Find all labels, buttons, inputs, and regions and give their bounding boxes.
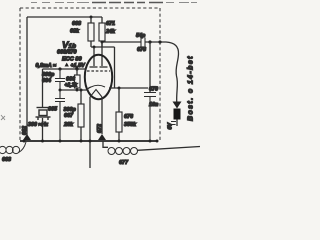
svg-text:668: 668 [72,21,81,27]
wire R676 stubs [118,88,120,141]
node dot L663 bus [23,140,26,143]
svg-text:672: 672 [97,124,103,133]
node dot R667 bus [80,140,83,143]
node dot C679 bus [149,140,152,143]
dashed enclosure frame top [20,7,160,9]
resistor R666 2,2k [75,75,81,88]
node dot anode1 tap [93,46,96,49]
svg-text:667: 667 [64,113,74,119]
wire output cable curve [166,42,179,103]
cathode arc [91,85,105,87]
node: rail junction dot at R668 [90,16,93,19]
ground bus [20,140,158,142]
node dot R667 top [80,89,83,92]
svg-text:+2,2k: +2,2k [65,83,78,89]
wire anode2 node y42 [102,41,141,43]
node dot at 160 [158,40,161,43]
dashed enclosure frame left [19,8,21,141]
svg-text:300 ≈Hz: 300 ≈Hz [28,122,48,128]
svg-text:20k: 20k [63,122,74,128]
wire: left rail [26,17,28,135]
wire R668 bottom to y47 [90,41,92,47]
dashed enclosure frame right [159,8,161,141]
wire R671 top stub [101,17,103,23]
node dot bus end [156,140,159,143]
wire L677 to right edge [137,147,200,151]
wire R668 top stub [90,17,92,23]
wire cathode line y93 [60,89,87,91]
tube V1b envelope [85,55,112,99]
node dot resonator bus [41,140,44,143]
wire anode1 lead [93,47,95,66]
inductor L677 [103,141,108,147]
wire heater lead left (down past bus, off page) [89,97,91,168]
wire anode2 lead [101,42,103,66]
capacitor C665 300p [55,90,65,141]
wire secondary cathode/grid line y88 [109,87,148,89]
svg-text:54p: 54p [136,33,146,39]
svg-text:676: 676 [124,114,134,120]
tuning fork resonator [36,108,51,121]
node dot R666 top [75,67,78,70]
heater [90,90,102,98]
node dot at 150 [148,40,151,43]
svg-text:Bost. o 14-bet: Bost. o 14-bet [188,55,195,121]
capacitor C664 300p [55,69,65,90]
node dot R676 bus [118,140,121,143]
resistor R667 20k [78,104,84,127]
node dot R666 bottom [76,89,79,92]
svg-text:24k: 24k [105,29,116,35]
capacitor C678 54p [141,38,145,48]
svg-text:10n: 10n [149,102,159,108]
wire: B+ top rail [27,16,102,18]
cathode lead to left [87,87,91,90]
cropped text remnants along top edge [31,2,197,4]
wire heater lead right [101,97,103,134]
wire R667 stubs [80,90,82,141]
svg-text:679: 679 [149,87,158,93]
stray mark bottom left [1,115,5,120]
wire down right side of tube [114,47,116,88]
anode plate 2 [100,66,108,68]
resistor R676 350k [116,112,122,132]
svg-text:350k: 350k [124,122,137,128]
svg-text:664: 664 [42,78,51,84]
node dot heater-bus [89,140,92,143]
resistor R668 68k [88,23,94,41]
svg-text:ECC 80: ECC 80 [62,57,82,63]
tuning fork resonator lead [42,69,44,108]
svg-text:678: 678 [137,47,146,53]
chassis arrow left rail [23,134,31,140]
wire C679 vertical [149,42,151,92]
wire resonator to bus [42,118,44,141]
label +1,5V with marker [65,63,69,67]
wire y47 from R668 to right [91,46,115,48]
node dot R676 top [118,87,121,90]
svg-text:6V: 6V [168,123,174,130]
chassis arrow heater [98,134,106,140]
connector plug [173,102,182,109]
wire R671 bottom [101,41,103,47]
svg-text:68k: 68k [70,29,80,35]
node dot C665 top [59,89,62,92]
svg-text:0,8mA ≈: 0,8mA ≈ [36,63,56,69]
inductor L663 [0,142,26,154]
resistor R671 24k [99,23,105,41]
svg-text:677: 677 [119,160,129,166]
node dot C664 top [58,67,61,70]
node dot anode2 [101,41,104,44]
node dot C665 bus [59,140,62,143]
anode plate 1 [90,66,98,68]
grid (dashed) [87,70,110,72]
wire y42 right of cap [145,41,166,43]
svg-text:669/670: 669/670 [57,50,77,56]
capacitor C679 10n [144,93,156,142]
svg-text:663: 663 [2,157,11,163]
svg-text:671: 671 [106,21,115,27]
wire grid line y70 [43,68,87,70]
wire R666 stubs [76,69,78,90]
